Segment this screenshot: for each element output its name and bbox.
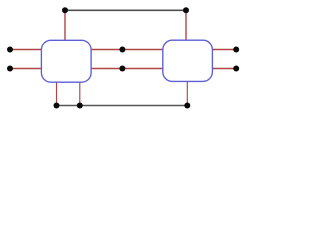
wire left input row 2 xyxy=(10,68,42,70)
node right output 1 xyxy=(233,47,239,53)
node middle row 1 xyxy=(119,47,125,53)
wire right output row 1 xyxy=(212,49,236,51)
block U2 xyxy=(163,40,213,81)
wire bottom bus xyxy=(57,105,188,107)
node middle row 2 xyxy=(119,66,125,72)
wire middle row 1 between U1 and U2 xyxy=(91,49,164,51)
wire red stub U2 bottom pin xyxy=(186,81,188,105)
node right output 2 xyxy=(233,66,239,72)
node top right xyxy=(183,7,189,13)
node bottom middle junction xyxy=(77,103,83,109)
wire red stub U1 bottom pin a xyxy=(56,82,58,106)
node top left xyxy=(62,7,68,13)
block U1 xyxy=(41,40,91,82)
wire middle row 2 between U1 and U2 xyxy=(91,68,164,70)
node left input 1 xyxy=(7,47,13,53)
wire red stub from top bus to U1 xyxy=(64,10,66,40)
wire red stub from top bus to U2 xyxy=(185,10,187,40)
wire right output row 2 xyxy=(212,68,236,70)
node bottom left junction xyxy=(54,103,60,109)
wire red stub U1 bottom pin b xyxy=(79,82,81,106)
node left input 2 xyxy=(7,66,13,72)
wire left input row 1 xyxy=(10,49,42,51)
wire top bus xyxy=(65,9,186,11)
node bottom right junction xyxy=(184,103,190,109)
